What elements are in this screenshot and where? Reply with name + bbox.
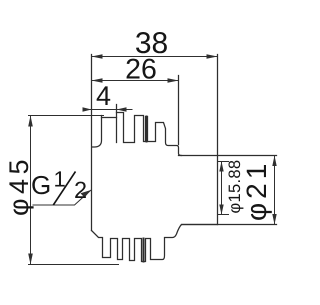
svg-text:φ21: φ21: [241, 160, 272, 221]
svg-text:G: G: [31, 170, 51, 200]
svg-text:26: 26: [125, 54, 157, 86]
svg-text:2: 2: [74, 177, 87, 203]
svg-text:φ45: φ45: [4, 155, 34, 216]
svg-text:4: 4: [96, 81, 111, 111]
